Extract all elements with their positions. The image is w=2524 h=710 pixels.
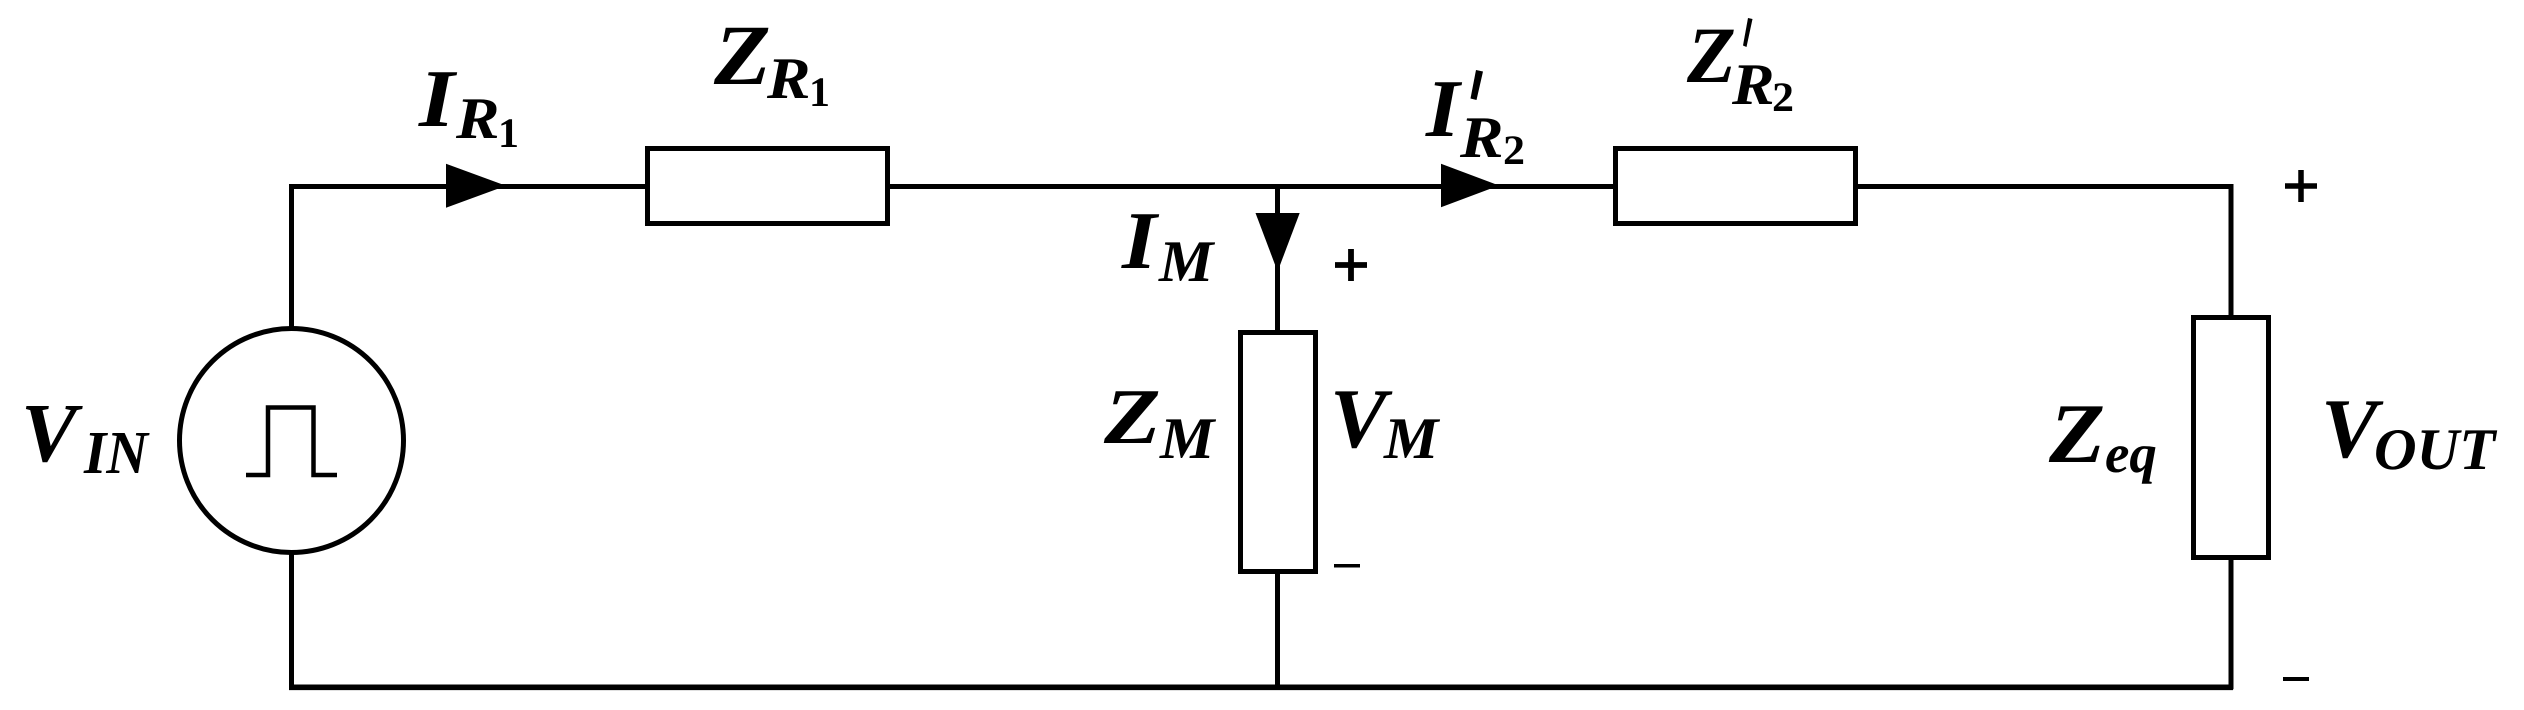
wire right vertical from Zeq bottom to bottom rail [2229,557,2234,689]
resistor ZR1 body [648,149,888,224]
plus sign at VM top [1335,249,1367,281]
svg-text:I: I [1121,195,1160,286]
source VIN circle [180,329,404,553]
svg-text:M: M [1158,228,1216,294]
svg-text:R: R [766,45,811,111]
current arrow IR2prime [1441,164,1499,207]
svg-text:IN: IN [83,420,150,487]
svg-text:Z: Z [1103,374,1161,461]
wire left vertical from top corner to source top [289,184,294,330]
svg-text:2: 2 [1772,75,1794,121]
svg-text:eq: eq [2105,423,2157,484]
svg-text:1: 1 [809,70,830,116]
svg-text:OUT: OUT [2374,416,2497,482]
svg-text:Z: Z [713,7,771,103]
source VIN pulse symbol [246,408,337,476]
wire right vertical from top corner to Zeq top [2229,184,2234,320]
resistor Zeq body [2194,318,2269,558]
wire left vertical from source bottom to bottom rail [289,553,294,689]
svg-text:R: R [1459,104,1504,170]
current arrow IM downward [1256,213,1300,272]
wire bottom horizontal rail [289,684,2233,690]
svg-text:1: 1 [498,111,519,157]
wire middle vertical from node A to ZM top [1275,186,1280,336]
svg-text:I: I [418,53,458,144]
resistor ZM body [1241,333,1316,572]
current arrow IR1 [446,164,506,208]
wire top horizontal from source to output corner [289,184,2233,189]
svg-text:M: M [1159,405,1217,471]
minus sign at VM bottom [1334,564,1360,568]
svg-text:Z: Z [1686,12,1736,100]
svg-text:R: R [1731,51,1775,117]
svg-text:2: 2 [1503,128,1525,174]
minus sign at VOUT bottom [2283,677,2309,681]
plus sign at VOUT top [2285,170,2317,202]
svg-text:M: M [1383,405,1441,471]
svg-text:I: I [1425,63,1463,154]
svg-text:V: V [21,387,83,480]
svg-text:R: R [455,85,500,151]
svg-text:Z: Z [2048,387,2105,481]
resistor ZR2prime body [1616,149,1856,224]
wire middle vertical from ZM bottom to bottom rail [1275,572,1280,687]
